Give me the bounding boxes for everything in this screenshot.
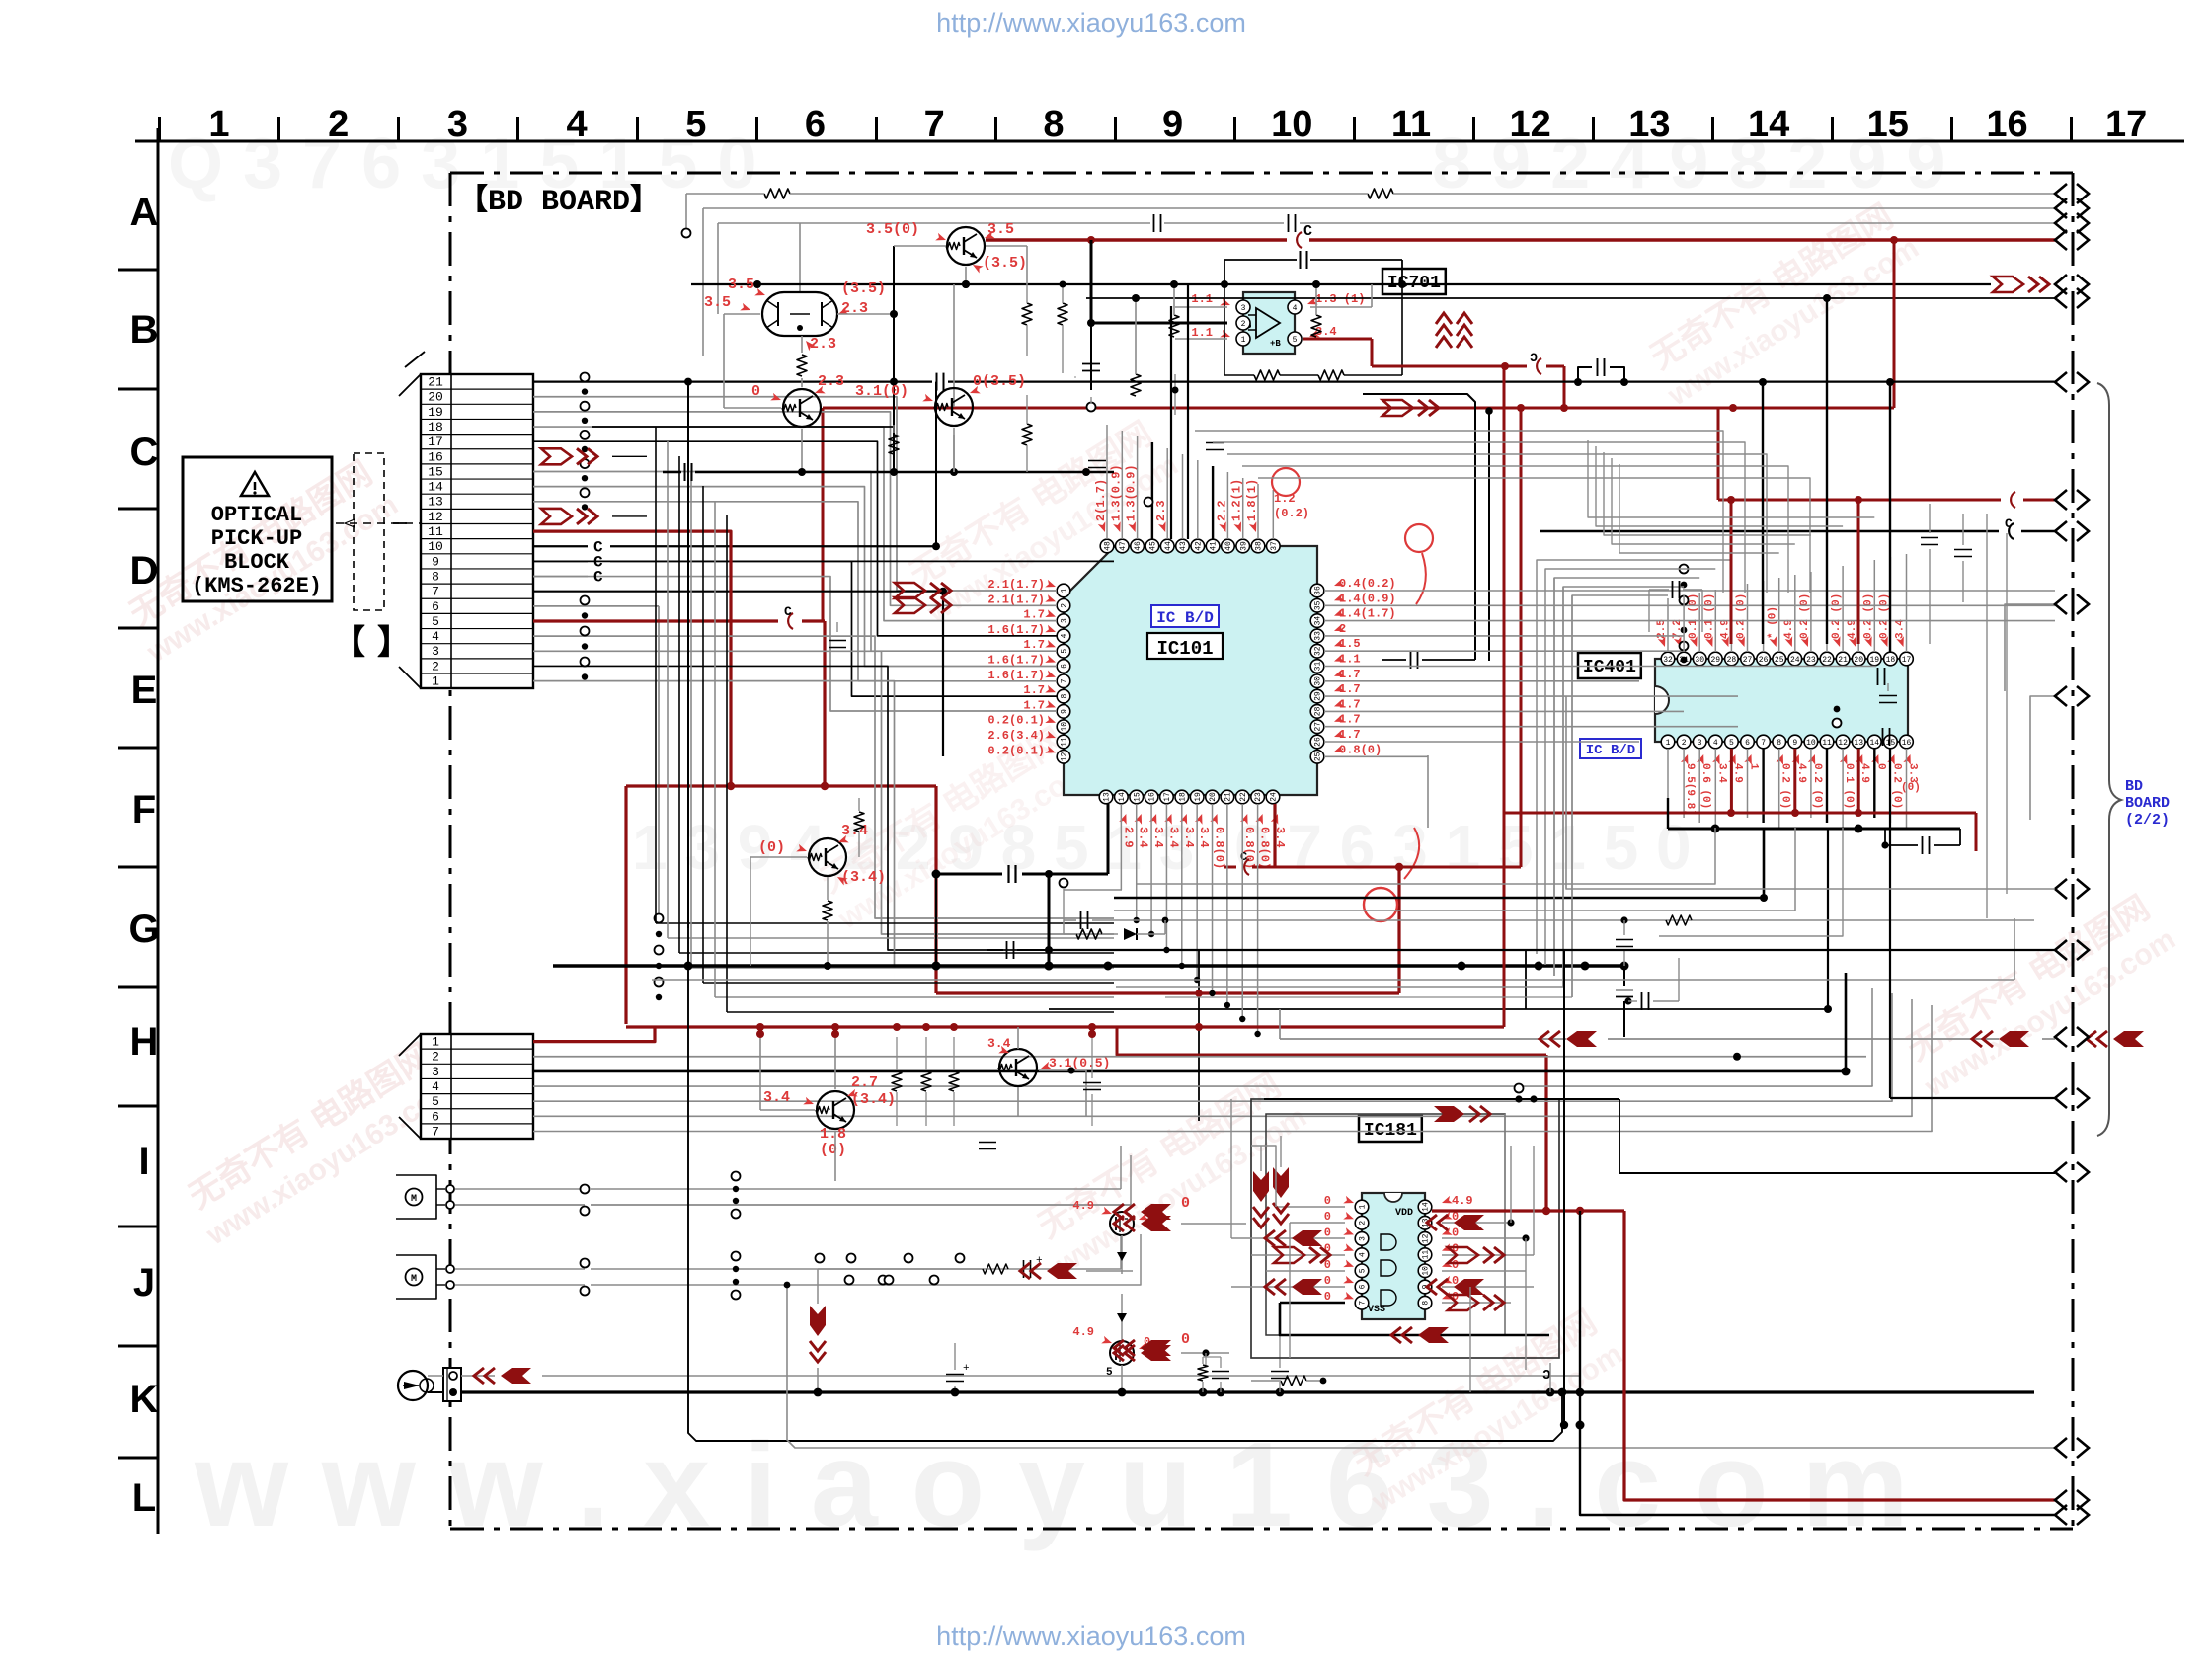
svg-text:J: J [133, 1261, 155, 1305]
svg-text:21: 21 [428, 375, 443, 390]
svg-text:6: 6 [1061, 664, 1069, 669]
svg-text:10: 10 [428, 539, 443, 554]
svg-text:32: 32 [1663, 656, 1673, 665]
diode + resistor row [1076, 929, 1102, 939]
svg-text:VDD: VDD [1395, 1208, 1413, 1219]
svg-text:1: 1 [432, 674, 439, 689]
BD BOARD (2/2) brace [2097, 383, 2121, 1136]
svg-text:30: 30 [1314, 676, 1323, 686]
svg-text:9.5(9.8): 9.5(9.8) [1684, 763, 1696, 816]
svg-text:7: 7 [1761, 739, 1766, 748]
svg-text:29: 29 [1710, 656, 1720, 665]
svg-text:0: 0 [1324, 1210, 1331, 1224]
black rails A-B [691, 283, 1991, 285]
svg-text:2.1(1.7): 2.1(1.7) [987, 593, 1045, 606]
risers from CN7 wires going up right [1845, 973, 1848, 1071]
svg-text:4.9: 4.9 [1072, 1325, 1094, 1339]
svg-text:1.2(1): 1.2(1) [1230, 479, 1244, 521]
down arrows pair [1253, 1171, 1269, 1202]
svg-text:12: 12 [1422, 1233, 1431, 1243]
svg-text:29: 29 [1314, 691, 1323, 701]
gray low rail to edge [787, 1285, 2055, 1448]
svg-text:4: 4 [1359, 1252, 1368, 1257]
svg-text:1: 1 [1748, 763, 1760, 770]
svg-text:2: 2 [1359, 1221, 1368, 1226]
black y1022 [1049, 1008, 1828, 1010]
svg-text:17: 17 [1902, 656, 1912, 665]
svg-text:(3.4): (3.4) [851, 1091, 896, 1108]
svg-text:9: 9 [1792, 739, 1797, 748]
F row right rails [1049, 949, 2055, 951]
svg-text:1.6(1.7): 1.6(1.7) [987, 654, 1045, 668]
svg-text:11: 11 [1822, 739, 1832, 748]
svg-text:【BD BOARD】: 【BD BOARD】 [458, 184, 660, 219]
svg-text:20: 20 [1209, 792, 1218, 802]
svg-text:(0): (0) [758, 839, 785, 856]
svg-text:0: 0 [1324, 1194, 1331, 1208]
caps right of IC401 top [1921, 537, 1938, 539]
svg-text:BD: BD [2125, 778, 2143, 795]
cap joining bus/g2 [1616, 939, 1633, 941]
svg-text:0.8(0): 0.8(0) [1339, 743, 1382, 756]
svg-text:9: 9 [1162, 104, 1183, 145]
svg-text:M: M [411, 1274, 417, 1285]
svg-text:3: 3 [1061, 618, 1069, 623]
svg-text:+B: +B [1270, 339, 1281, 349]
connector CN H 7-pin [421, 1034, 533, 1139]
svg-text:13: 13 [1854, 739, 1863, 748]
IC401 specials up [1730, 500, 1733, 644]
E/F gray corner wires right edge [2005, 604, 2055, 691]
IC101 bottom pin wires [1107, 804, 1110, 874]
svg-text:1.7: 1.7 [1339, 682, 1361, 696]
svg-text:32: 32 [1314, 646, 1323, 656]
svg-text:24: 24 [1790, 656, 1800, 665]
svg-text:19: 19 [1194, 792, 1203, 802]
svg-text:0: 0 [1874, 763, 1886, 770]
svg-text:43: 43 [1179, 541, 1188, 551]
svg-text:2: 2 [328, 104, 349, 145]
black bus end cap right [1922, 836, 1924, 854]
transistor Q704 [935, 388, 973, 426]
svg-text:6: 6 [1359, 1284, 1368, 1289]
svg-text:16: 16 [1902, 739, 1912, 748]
IC101 right pin wires [1324, 590, 2055, 592]
svg-text:21: 21 [1224, 792, 1232, 802]
transistor Q703 [783, 389, 821, 427]
svg-text:20: 20 [1854, 656, 1863, 665]
motor M1 [406, 1189, 423, 1206]
svg-text:5: 5 [1061, 649, 1069, 654]
svg-text:4.9: 4.9 [1452, 1194, 1473, 1208]
svg-text:1: 1 [1241, 336, 1246, 345]
svg-text:PICK-UP: PICK-UP [211, 526, 302, 551]
svg-text:0.6 (0): 0.6 (0) [1699, 763, 1711, 809]
svg-text:2.3: 2.3 [810, 336, 836, 353]
FET Q708 [1110, 1212, 1134, 1235]
svg-text:15: 15 [1886, 739, 1896, 748]
svg-text:11: 11 [1422, 1250, 1431, 1260]
svg-text:3.5: 3.5 [728, 277, 754, 293]
svg-text:Ɔ: Ɔ [1530, 351, 1538, 365]
svg-text:1.3 (1): 1.3 (1) [1315, 292, 1365, 306]
svg-text:F: F [132, 788, 156, 831]
svg-text:16: 16 [1148, 792, 1157, 802]
black verticals mid [1363, 394, 1475, 660]
svg-text:17: 17 [428, 435, 443, 449]
svg-text:12: 12 [1510, 104, 1551, 145]
IC701 wiring [1175, 306, 1227, 308]
B row caps [1300, 251, 1302, 269]
optical pick-up block [183, 457, 332, 601]
svg-text:12: 12 [1838, 739, 1848, 748]
svg-text:18: 18 [1886, 656, 1896, 665]
svg-text:3: 3 [1241, 304, 1246, 313]
svg-text:5: 5 [1293, 336, 1298, 345]
svg-text:1.1: 1.1 [1191, 292, 1213, 306]
svg-text:0.8(0): 0.8(0) [1213, 827, 1226, 869]
svg-text:41: 41 [1210, 541, 1219, 551]
svg-text:1.5: 1.5 [1339, 637, 1361, 651]
svg-text:0.2 (0): 0.2 (0) [1862, 594, 1874, 639]
svg-text:7: 7 [924, 104, 945, 145]
svg-text:1: 1 [208, 104, 229, 145]
svg-text:3.1(0.5): 3.1(0.5) [1049, 1056, 1110, 1070]
resistors under B [1173, 284, 1175, 315]
cap jog on y387 [1578, 367, 1592, 382]
board edge connector chevrons [2055, 184, 2067, 203]
svg-text:1.6(1.7): 1.6(1.7) [987, 669, 1045, 682]
svg-text:11: 11 [1391, 104, 1431, 145]
svg-text:7: 7 [432, 1124, 439, 1139]
svg-text:4: 4 [567, 104, 588, 145]
svg-text:34: 34 [1314, 616, 1323, 626]
svg-text:C: C [784, 604, 792, 619]
svg-text:E: E [131, 669, 158, 712]
svg-text:33: 33 [1314, 631, 1323, 641]
svg-text:L: L [132, 1476, 156, 1520]
long black verticals [687, 382, 689, 928]
svg-text:0 7 6 3 1 5 1 5 0: 0 7 6 3 1 5 1 5 0 [1234, 812, 1692, 883]
svg-text:0.2 (0): 0.2 (0) [1736, 594, 1748, 639]
svg-text:25: 25 [1314, 752, 1323, 761]
svg-text:(3.5): (3.5) [841, 280, 886, 297]
IC101 [1064, 546, 1317, 795]
svg-text:(3.5): (3.5) [983, 255, 1027, 272]
svg-text:7: 7 [1061, 678, 1069, 683]
svg-text:1.8(1): 1.8(1) [1245, 479, 1259, 521]
svg-text:35: 35 [1314, 600, 1323, 610]
svg-text:23: 23 [1254, 792, 1263, 802]
dual transistor Q702 [762, 292, 837, 336]
svg-text:C: C [1240, 850, 1247, 864]
svg-text:16: 16 [1986, 104, 2027, 145]
svg-text:17: 17 [1163, 792, 1172, 802]
svg-text:2.9: 2.9 [1121, 827, 1135, 848]
svg-text:9: 9 [432, 554, 439, 569]
svg-text:+: + [963, 1363, 970, 1375]
svg-text:3: 3 [432, 644, 439, 659]
H gray rail with arrows [1279, 1009, 1281, 1039]
svg-text:H: H [130, 1020, 159, 1064]
svg-text:15: 15 [1867, 104, 1909, 145]
svg-text:BLOCK: BLOCK [224, 550, 290, 575]
svg-text:I: I [138, 1140, 149, 1183]
FET Q709 [1110, 1341, 1134, 1365]
svg-text:9: 9 [1061, 709, 1069, 714]
top area gray rails [764, 189, 790, 198]
svg-text:42: 42 [1194, 541, 1203, 551]
svg-text:45: 45 [1149, 541, 1158, 551]
svg-text:1.4(0.9): 1.4(0.9) [1339, 592, 1396, 605]
IC181 outer rect [1251, 1099, 1559, 1358]
svg-text:3.4: 3.4 [1197, 827, 1211, 848]
svg-text:4: 4 [1061, 633, 1069, 638]
svg-text:5: 5 [1106, 1367, 1113, 1379]
svg-text:C: C [130, 431, 159, 474]
svg-text:C: C [2005, 516, 2013, 531]
svg-text:8: 8 [1422, 1301, 1431, 1306]
svg-text:(0): (0) [820, 1142, 846, 1158]
svg-text:25: 25 [1775, 656, 1784, 665]
left loop big verticals [1571, 595, 1573, 997]
arrow on red y413 [1382, 400, 1413, 416]
thick black F row [663, 471, 681, 474]
svg-text:27: 27 [1314, 722, 1323, 732]
svg-text:5: 5 [1729, 739, 1734, 748]
svg-text:2: 2 [1241, 320, 1246, 329]
svg-text:1.6(1.7): 1.6(1.7) [987, 623, 1045, 637]
svg-text:12: 12 [1061, 752, 1069, 761]
svg-text:4.9: 4.9 [1858, 763, 1870, 783]
svg-text:(0): (0) [1901, 782, 1921, 794]
svg-text:2.7: 2.7 [851, 1074, 878, 1091]
svg-text:0.1 (0): 0.1 (0) [1703, 594, 1715, 639]
svg-text:5: 5 [685, 104, 706, 145]
IC181 left pin wires [1276, 1206, 1345, 1208]
svg-text:3.4: 3.4 [1137, 827, 1150, 848]
svg-text:0: 0 [751, 383, 760, 400]
svg-text:21: 21 [1838, 656, 1848, 665]
switch S701 [398, 1371, 428, 1400]
svg-text:7: 7 [1359, 1301, 1368, 1306]
IC101 top pin wires [1106, 425, 1108, 539]
svg-text:IC B/D: IC B/D [1156, 609, 1214, 627]
svg-text:IC701: IC701 [1387, 274, 1441, 293]
svg-text:4: 4 [1293, 304, 1298, 313]
svg-text:8: 8 [1777, 739, 1781, 748]
svg-text:47: 47 [1119, 541, 1128, 551]
svg-text:1.1: 1.1 [1339, 653, 1361, 667]
IC701 [1382, 269, 1446, 294]
J test row [818, 1268, 984, 1270]
dashed link arrow [336, 522, 464, 524]
frame left ruler [157, 128, 160, 1534]
connector bracket marks [399, 374, 421, 396]
svg-text:1.1: 1.1 [1191, 326, 1213, 340]
svg-text:26: 26 [1759, 656, 1769, 665]
svg-text:1.7: 1.7 [1339, 713, 1361, 727]
svg-text:3.5(0): 3.5(0) [866, 221, 919, 238]
svg-text:22: 22 [1239, 792, 1248, 802]
pin6 gray [533, 605, 659, 607]
svg-text:0: 0 [1181, 1331, 1190, 1348]
svg-text:13: 13 [1628, 104, 1670, 145]
svg-text:3.4: 3.4 [987, 1036, 1011, 1051]
main black bus G [553, 964, 1624, 967]
svg-text:3: 3 [1359, 1236, 1368, 1241]
svg-text:2.3: 2.3 [1154, 500, 1168, 521]
transistor Q701 [947, 227, 985, 265]
svg-text:37: 37 [1270, 541, 1279, 551]
motor M2 [406, 1269, 423, 1286]
svg-text:14: 14 [428, 480, 443, 495]
svg-text:3.3: 3.3 [1907, 763, 1919, 783]
red y878 [1224, 866, 1236, 869]
svg-text:3: 3 [432, 1065, 439, 1079]
svg-text:1.7: 1.7 [1023, 608, 1045, 622]
black 432 [592, 426, 894, 428]
svg-text:40: 40 [1224, 541, 1233, 551]
x697 corner to bus [688, 928, 1562, 1441]
red bottom right path [1624, 1211, 2055, 1500]
H row red wire [626, 1025, 1504, 1028]
svg-text:19: 19 [1869, 656, 1879, 665]
svg-text:4: 4 [1713, 739, 1718, 748]
svg-text:26: 26 [1314, 737, 1323, 747]
svg-text:48: 48 [1104, 541, 1113, 551]
polarized cap J [946, 1374, 964, 1376]
svg-text:5: 5 [432, 614, 439, 629]
wire risers topleft [685, 194, 687, 229]
svg-text:36: 36 [1314, 586, 1323, 595]
svg-text:6: 6 [1745, 739, 1750, 748]
svg-text:3.5: 3.5 [704, 294, 731, 311]
svg-text:4.9: 4.9 [1847, 619, 1858, 639]
svg-text:3.1(0): 3.1(0) [855, 383, 908, 400]
svg-text:27: 27 [1743, 656, 1753, 665]
svg-text:15: 15 [1133, 792, 1142, 802]
svg-text:3.4: 3.4 [1182, 827, 1196, 848]
svg-text:1.7: 1.7 [1339, 668, 1361, 681]
IC181 right pin wires [1432, 1209, 1624, 1212]
IC181 vss route [1280, 1303, 1549, 1335]
svg-text:28: 28 [1314, 706, 1323, 716]
arrows at pins 16/12 [541, 448, 572, 464]
svg-text:2: 2 [432, 1050, 439, 1065]
cross-links IC101 top to IC401 top [1619, 464, 1779, 553]
resistors H-I [892, 1071, 902, 1091]
svg-text:2.6(3.4): 2.6(3.4) [987, 729, 1045, 743]
svg-text:1: 1 [1666, 739, 1671, 748]
svg-text:4.9: 4.9 [1783, 619, 1795, 639]
svg-text:14: 14 [1118, 792, 1127, 802]
svg-text:1: 1 [432, 1035, 439, 1050]
svg-text:8: 8 [432, 569, 439, 584]
svg-text:0.2 (0): 0.2 (0) [1831, 594, 1843, 639]
svg-text:(3.4): (3.4) [841, 869, 886, 886]
svg-text:0.2 (0): 0.2 (0) [1811, 763, 1823, 809]
svg-text:IC401: IC401 [1583, 658, 1636, 677]
pins 4..1 fan down [533, 636, 1114, 918]
connector CN101 21-pin [421, 374, 533, 688]
double arrows into IC101 pins 1-2 [895, 583, 925, 598]
svg-text:24: 24 [1270, 792, 1279, 802]
y962 rail [987, 949, 1003, 951]
svg-text:30: 30 [1695, 656, 1704, 665]
svg-text:http://www.xiaoyu163.com: http://www.xiaoyu163.com [936, 8, 1246, 38]
svg-text:12: 12 [428, 510, 443, 524]
svg-text:M: M [411, 1194, 417, 1205]
svg-text:18: 18 [1178, 792, 1187, 802]
IC181 top arrow [1434, 1106, 1464, 1122]
svg-text:14: 14 [1869, 739, 1879, 748]
IC181 left feed lines [1251, 1146, 1276, 1207]
svg-text:10: 10 [1422, 1266, 1431, 1276]
svg-text:1.3(0.9): 1.3(0.9) [1125, 464, 1139, 521]
svg-text:1.4(1.7): 1.4(1.7) [1339, 607, 1396, 621]
gray under-bus rail [652, 979, 2014, 981]
svg-text:3: 3 [447, 104, 468, 145]
svg-text:OPTICAL: OPTICAL [211, 503, 302, 527]
svg-text:20: 20 [428, 390, 443, 405]
svg-text:38: 38 [1255, 541, 1264, 551]
svg-text:2(1.7): 2(1.7) [1094, 479, 1108, 521]
black vertical x1214 [1198, 950, 1200, 1121]
cap at 1666 bottom [1641, 992, 1643, 1010]
svg-text:6: 6 [432, 599, 439, 614]
svg-text:4: 4 [432, 1079, 439, 1094]
svg-text:28: 28 [1727, 656, 1737, 665]
IC181 [1359, 1116, 1422, 1142]
svg-text:3.4: 3.4 [1895, 619, 1907, 639]
svg-text:3.4: 3.4 [1151, 827, 1165, 848]
svg-text:】: 】 [377, 624, 411, 665]
svg-text:2: 2 [1061, 603, 1069, 608]
IC401 bottom wires [1667, 749, 1669, 813]
thick vertical to bus [1048, 874, 1051, 966]
svg-text:2: 2 [1682, 739, 1687, 748]
svg-text:1: 1 [1061, 588, 1069, 593]
black verticals bottom right [1563, 950, 1565, 1425]
svg-text:0: 0 [1181, 1195, 1190, 1212]
svg-text:7: 7 [432, 585, 439, 599]
svg-text:2.2: 2.2 [1215, 500, 1228, 521]
svg-text:11: 11 [1061, 737, 1069, 747]
svg-text:0.1 (0): 0.1 (0) [1688, 594, 1699, 639]
svg-text:1.7: 1.7 [1023, 638, 1045, 652]
svg-text:0(3.5): 0(3.5) [973, 373, 1026, 390]
svg-text:0.2 (0): 0.2 (0) [1799, 594, 1811, 639]
svg-text:14: 14 [1748, 104, 1789, 145]
Q702 connections [724, 313, 760, 315]
svg-text:3.4: 3.4 [763, 1089, 790, 1106]
D-E region: C-broken pair to edge [1540, 530, 1999, 533]
svg-text:0.2 (0): 0.2 (0) [1878, 594, 1890, 639]
svg-text:2: 2 [432, 659, 439, 673]
E-F right corner wires [1566, 696, 2055, 889]
CN7 wires [533, 1027, 655, 1042]
svg-text:G: G [128, 908, 159, 951]
svg-text:44: 44 [1164, 541, 1173, 551]
svg-text:IC101: IC101 [1156, 638, 1213, 660]
red circle annotations [1272, 468, 1300, 496]
svg-text:3: 3 [1698, 739, 1702, 748]
svg-text:1.7: 1.7 [1023, 683, 1045, 697]
svg-text:46: 46 [1134, 541, 1143, 551]
svg-text:10: 10 [1061, 722, 1069, 732]
svg-text:4.9: 4.9 [1731, 763, 1743, 783]
